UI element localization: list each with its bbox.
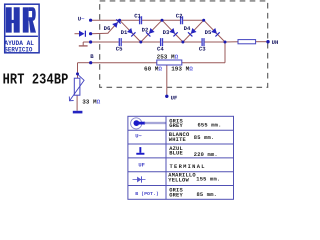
svg-text:SERVICIO: SERVICIO — [4, 46, 32, 53]
wire B corner down to pot — [77, 63, 79, 78]
logo HR box — [5, 4, 39, 53]
legend ground icon — [136, 147, 144, 155]
svg-text:C1: C1 — [134, 12, 141, 19]
wire input diode anode stub — [75, 33, 80, 35]
legend diode icon — [133, 176, 146, 182]
node T1 junction — [118, 19, 121, 22]
svg-text:33 MΩ: 33 MΩ — [82, 99, 100, 106]
svg-text:U~: U~ — [135, 134, 141, 140]
svg-text:655 mm.: 655 mm. — [198, 123, 222, 129]
svg-text:85 mm.: 85 mm. — [194, 135, 215, 141]
resistor 253M body — [157, 60, 182, 65]
svg-text:85 mm.: 85 mm. — [197, 192, 218, 198]
svg-text:UF: UF — [138, 163, 144, 169]
dashed enclosure box — [100, 1, 268, 87]
svg-text:YELLOW: YELLOW — [168, 178, 189, 184]
wire top rail segment U~ to C1 — [91, 19, 140, 21]
wire vertical B3 down to divider row — [224, 42, 226, 63]
wire output resistor to UH — [256, 41, 268, 43]
wire bottom rail C5 to C4 — [122, 41, 161, 43]
left earth bar — [79, 45, 88, 47]
wire top rail C1 to C2 — [142, 19, 180, 21]
svg-text:155 mm.: 155 mm. — [196, 177, 220, 183]
node UF terminal — [165, 95, 168, 98]
svg-text:WHITE: WHITE — [169, 137, 187, 143]
wire diagonal D5 — [204, 20, 225, 42]
wire left earth stub vertical — [82, 42, 84, 45]
node bottom-left terminal — [89, 40, 92, 43]
capacitor C1 plates — [140, 16, 142, 24]
node T2 junction — [161, 19, 164, 22]
diode D5 bar — [215, 32, 219, 36]
legend table frame — [128, 116, 234, 199]
chassis ground bar — [73, 111, 83, 114]
svg-text:60 MΩ: 60 MΩ — [144, 66, 162, 73]
wire divider row left segment from B — [91, 62, 157, 64]
wire bottom rail C4 to C3 — [163, 41, 202, 43]
logo HR letters — [6, 7, 36, 32]
diode D2 bar — [146, 32, 150, 36]
potentiometer body — [74, 78, 80, 95]
wire bottom rail C3 to node B3 — [204, 41, 225, 43]
node B2 junction — [181, 41, 184, 44]
wire top rail C2 to node T3 — [183, 19, 204, 21]
logo divider line — [5, 36, 38, 37]
capacitor C5 plates — [119, 38, 121, 46]
svg-text:BLUE: BLUE — [169, 151, 183, 157]
wire pot bottom to ground — [76, 95, 78, 111]
wire left earth stub horizontal — [83, 41, 90, 43]
wire node B3 to output resistor — [225, 41, 238, 43]
svg-text:HRT 234BP: HRT 234BP — [3, 72, 69, 88]
wire diagonal D3 — [162, 20, 183, 42]
svg-text:D6: D6 — [104, 25, 111, 32]
wire diagonal D6 — [108, 20, 120, 33]
svg-text:193 MΩ: 193 MΩ — [171, 66, 193, 73]
wire divider row right segment — [182, 62, 225, 64]
node UH terminal — [266, 40, 269, 43]
node B3 junction — [224, 41, 227, 44]
diode D4 bar — [188, 32, 192, 36]
node pot top junction — [76, 72, 79, 75]
node input diode terminal — [89, 32, 92, 35]
wire diagonal D4 — [183, 20, 204, 42]
svg-text:U~: U~ — [78, 15, 85, 22]
svg-text:TERMINAL: TERMINAL — [170, 164, 206, 170]
diode D4 — [191, 28, 197, 34]
wire B corner left — [78, 62, 91, 64]
svg-text:C4: C4 — [157, 45, 164, 52]
input diode bar — [84, 31, 86, 37]
diode D3 bar — [173, 32, 177, 36]
svg-text:D4: D4 — [184, 25, 191, 32]
diode D5 — [211, 28, 217, 34]
svg-text:253 MΩ: 253 MΩ — [157, 54, 179, 61]
node U~ terminal — [89, 19, 92, 22]
diode D3 — [169, 28, 175, 34]
wire diagonal D2 — [141, 20, 162, 42]
potentiometer wiper arrowhead — [69, 97, 73, 101]
svg-text:UH: UH — [272, 39, 279, 46]
svg-text:D1: D1 — [121, 29, 128, 36]
diode D2 — [149, 28, 155, 34]
node B terminal — [89, 61, 92, 64]
svg-text:D2: D2 — [142, 26, 149, 33]
input diode Din triangle — [79, 31, 85, 37]
wire bottom rail left to C5 — [91, 41, 119, 43]
node T3 junction — [202, 19, 205, 22]
potentiometer wiper arm — [70, 74, 84, 100]
svg-text:B (POT.): B (POT.) — [135, 191, 159, 197]
diode D6 — [112, 22, 118, 28]
wire diagonal D1 — [120, 20, 141, 42]
svg-text:220 mm.: 220 mm. — [194, 152, 218, 158]
resistor output body — [238, 40, 256, 44]
node B1 junction — [139, 41, 142, 44]
diode D6 bar — [116, 19, 121, 23]
svg-text:GREY: GREY — [169, 192, 183, 198]
svg-text:C2: C2 — [176, 12, 183, 19]
diode D1 bar — [131, 32, 135, 36]
wire UF tap down — [166, 65, 168, 96]
legend anode cap icon — [131, 118, 166, 129]
svg-text:D5: D5 — [205, 29, 212, 36]
svg-text:D3: D3 — [163, 29, 170, 36]
svg-text:UF: UF — [171, 94, 178, 101]
diode D1 — [127, 28, 133, 34]
capacitor C3 plates — [202, 38, 204, 46]
wire input middle stub — [91, 32, 109, 35]
svg-text:C3: C3 — [199, 45, 206, 52]
svg-text:C5: C5 — [116, 45, 123, 52]
capacitor C2 plates — [181, 16, 183, 24]
svg-text:B: B — [90, 53, 94, 60]
capacitor C4 plates — [161, 38, 163, 46]
svg-text:GREY: GREY — [169, 123, 183, 129]
